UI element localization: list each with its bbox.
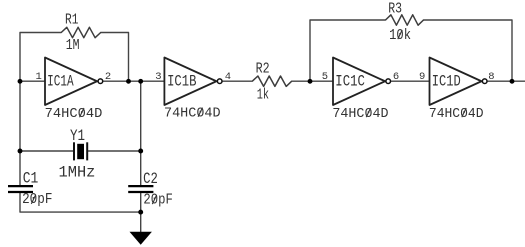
svg-text:1k: 1k <box>257 88 269 104</box>
svg-text:5: 5 <box>322 71 328 83</box>
svg-text:2: 2 <box>105 71 111 83</box>
svg-text:C1: C1 <box>23 170 39 188</box>
svg-text:1: 1 <box>36 71 42 83</box>
svg-text:8: 8 <box>488 71 494 83</box>
svg-text:IC1A: IC1A <box>47 73 74 91</box>
svg-text:74HC04D: 74HC04D <box>45 107 103 122</box>
svg-text:4: 4 <box>225 71 231 83</box>
svg-text:R2: R2 <box>256 61 270 77</box>
svg-text:20pF: 20pF <box>22 192 52 208</box>
svg-text:6: 6 <box>393 71 399 83</box>
svg-text:IC1C: IC1C <box>335 73 365 91</box>
svg-text:3: 3 <box>155 71 161 83</box>
svg-text:Y1: Y1 <box>70 127 85 145</box>
svg-text:10k: 10k <box>389 28 411 44</box>
svg-text:IC1D: IC1D <box>432 73 461 91</box>
svg-text:R3: R3 <box>388 1 402 17</box>
svg-text:C2: C2 <box>143 170 158 188</box>
svg-text:74HC04D: 74HC04D <box>332 107 388 122</box>
svg-text:9: 9 <box>419 71 425 83</box>
svg-text:74HC04D: 74HC04D <box>164 107 221 122</box>
svg-text:1MHz: 1MHz <box>59 164 96 182</box>
svg-text:74HC04D: 74HC04D <box>429 107 484 122</box>
svg-text:R1: R1 <box>65 12 78 28</box>
svg-text:1M: 1M <box>66 38 80 54</box>
svg-text:20pF: 20pF <box>143 192 173 208</box>
svg-text:IC1B: IC1B <box>167 73 196 91</box>
